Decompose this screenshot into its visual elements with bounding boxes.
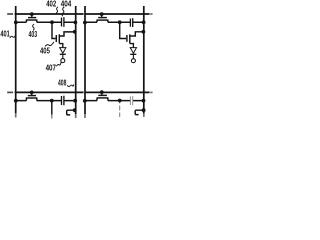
svg-text:408: 408 <box>58 79 67 88</box>
svg-text:407: 407 <box>46 64 57 73</box>
svg-text:401: 401 <box>0 30 10 39</box>
svg-text:404: 404 <box>61 0 72 8</box>
svg-text:403: 403 <box>29 30 38 39</box>
svg-text:402: 402 <box>46 0 56 8</box>
svg-text:405: 405 <box>40 46 50 55</box>
